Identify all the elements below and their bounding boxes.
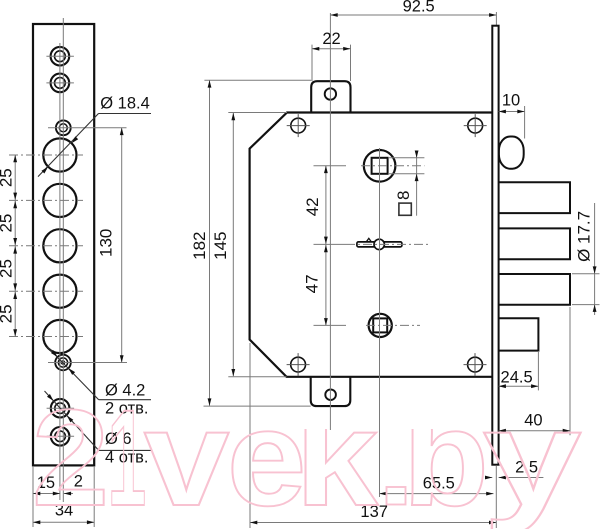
centerline of hole 2 — [9, 199, 83, 201]
svg-text:22: 22 — [322, 30, 340, 48]
lower spindle square — [373, 318, 387, 332]
faceplate outline — [33, 24, 94, 465]
deadbolt 2 — [498, 228, 570, 259]
dimension chain 25x4 line — [14, 155, 16, 337]
dimension 8 line — [416, 151, 418, 216]
dimension 145 line — [232, 113, 234, 376]
dimension 130 line — [121, 128, 123, 363]
svg-text:25: 25 — [0, 259, 15, 278]
centerline of hole 3 — [9, 245, 83, 247]
extension line below plate — [495, 466, 497, 528]
extension line 92.5 right — [495, 12, 497, 26]
svg-text:y: y — [483, 381, 582, 529]
faceplate screw centerline B — [62, 18, 64, 502]
centerline of hole 4 — [9, 290, 83, 292]
countersunk hole O4.2 lower — [55, 355, 71, 371]
screw post 3 — [291, 357, 306, 372]
screw hole O6 top 2 — [51, 74, 70, 93]
dimension 42-47 line — [325, 166, 327, 326]
extension line 10 right — [524, 106, 526, 139]
dimension 92.5 line — [330, 14, 496, 16]
roller bolt — [499, 137, 524, 169]
faceplate hole centerline A — [59, 43, 61, 500]
screw hole O6 top 1 — [51, 47, 70, 66]
svg-text:Ø 17.7: Ø 17.7 — [575, 211, 594, 262]
bottom flange hole — [325, 389, 336, 400]
dimension 24.5 line — [499, 385, 539, 387]
svg-text:182: 182 — [190, 232, 209, 260]
extension line bottom of 130 — [48, 362, 127, 364]
latch bolt — [498, 318, 538, 350]
dimension 10 line — [499, 111, 525, 113]
extension line flange top — [204, 79, 311, 81]
dimension 182 line — [209, 80, 211, 405]
screw post 2 — [468, 118, 483, 133]
extension line 24.5 — [537, 351, 539, 390]
countersunk hole O4.2 upper — [56, 120, 71, 135]
extension line body left corner — [249, 343, 251, 528]
hole O18.4 number 2 — [43, 184, 76, 217]
extension line body bottom — [228, 376, 286, 378]
extension line 40 — [569, 307, 571, 435]
hole O18.4 number 3 — [43, 229, 76, 262]
lock body outline — [250, 113, 494, 377]
upper spindle hole circle — [364, 150, 396, 182]
extension line spindle top — [314, 165, 347, 167]
extension line key axis — [314, 243, 347, 245]
flange centerline — [329, 13, 331, 430]
screw post 4 — [468, 357, 483, 372]
keyhole centerline — [346, 243, 430, 245]
keyhole bar — [357, 242, 402, 247]
svg-text:8: 8 — [394, 190, 413, 199]
leader O18.4 — [38, 114, 99, 177]
screw hole O6 bottom 1 — [51, 399, 70, 418]
dimension 15 line — [33, 493, 60, 495]
dimension 2 line — [64, 493, 73, 495]
svg-text:92.5: 92.5 — [403, 0, 435, 15]
face plate edge view — [492, 26, 498, 465]
keyhole notch — [366, 238, 372, 242]
dimension 137 line — [250, 522, 496, 524]
bottom mounting flange — [311, 375, 351, 406]
top flange hole — [325, 88, 336, 99]
deadbolt 1 — [498, 182, 570, 213]
deadbolt 3 — [498, 274, 570, 305]
svg-text:25: 25 — [0, 214, 15, 233]
lower spindle centerline — [366, 324, 420, 326]
dimension 17.7 line — [594, 203, 596, 315]
extension line flange bottom — [204, 405, 311, 407]
svg-text:Ø 18.4: Ø 18.4 — [100, 95, 150, 113]
lower spindle hole circle — [369, 314, 392, 337]
svg-text:2: 2 — [32, 382, 109, 529]
hole O18.4 number 1 — [43, 138, 76, 171]
svg-text:10: 10 — [502, 91, 520, 109]
screw hole O6 bottom 2 — [51, 427, 70, 446]
dimension 22 line — [312, 48, 351, 50]
svg-text:1: 1 — [107, 383, 146, 529]
screw post 1 — [291, 118, 306, 133]
extension lines 22 — [311, 45, 313, 81]
dimension 2.5 line — [486, 477, 493, 479]
keyhole hub — [374, 239, 384, 249]
centerline of hole 1 — [9, 154, 83, 156]
dimension 40 line — [499, 430, 570, 432]
extension line plate right — [93, 466, 95, 527]
svg-text:130: 130 — [96, 229, 115, 257]
svg-text:v: v — [144, 381, 230, 529]
square symbol — [399, 203, 411, 215]
extension line top of 130 — [48, 127, 127, 129]
dimension 65.5 line — [379, 493, 493, 495]
svg-text:145: 145 — [211, 232, 230, 260]
top mounting flange — [311, 81, 350, 114]
svg-text:42: 42 — [303, 197, 322, 216]
extension line plate left — [32, 466, 34, 527]
centerline of hole 5 — [9, 336, 83, 338]
leader O4.2 — [47, 347, 99, 400]
hole O18.4 number 5 — [43, 320, 76, 353]
dimension 34 line — [33, 521, 94, 523]
svg-text:25: 25 — [0, 168, 15, 187]
extension line spindle bottom — [314, 324, 347, 326]
extension lines 17.7 — [572, 273, 600, 275]
extension line body top — [228, 112, 287, 114]
leader O6 — [45, 391, 99, 450]
hole O18.4 number 4 — [43, 275, 76, 308]
svg-text:47: 47 — [302, 274, 321, 293]
upper spindle square — [372, 158, 388, 174]
svg-text:25: 25 — [0, 304, 15, 323]
upper spindle centerline — [361, 165, 424, 167]
watermark 21vek.by — [32, 381, 582, 529]
extension lines square 8 — [389, 157, 424, 159]
spindle centerline vertical — [379, 148, 381, 497]
